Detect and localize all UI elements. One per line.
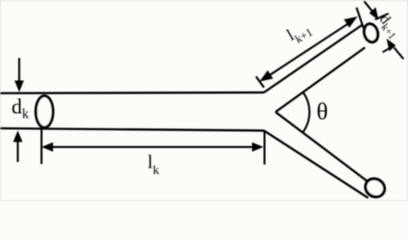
d_k+1 upper extension tick	[375, 14, 389, 20]
parent tube opening ellipse	[36, 96, 53, 128]
svg-text:θ: θ	[317, 100, 329, 126]
upper branch inner wall	[276, 48, 366, 113]
d_k+1 upper-left arrow	[364, 1, 372, 11]
l_k+1 label	[284, 17, 316, 49]
lower branch inner wall	[276, 112, 368, 181]
upper branch opening ellipse	[362, 22, 380, 43]
l_k right extension line	[264, 130, 266, 165]
l_k left extension line	[41, 129, 43, 165]
d_k+1 lower extension tick	[383, 45, 395, 52]
parent tube top wall	[0, 91, 264, 94]
d_k+1 lower-right arrow	[394, 48, 404, 60]
l_k dimension line	[49, 146, 256, 148]
l_k+1 lower extension tick	[256, 77, 264, 88]
d_k lower arrow	[17, 139, 19, 162]
lower branch opening ellipse	[362, 175, 388, 200]
d_k upper arrow	[18, 58, 20, 84]
parent tube bottom wall	[0, 128, 264, 130]
l_k+1 upper extension tick	[357, 8, 364, 29]
lower branch outer wall	[264, 131, 368, 198]
l_k+1 dimension line	[266, 22, 351, 78]
theta angle arc	[303, 92, 309, 131]
d_k+1 label	[374, 12, 403, 42]
upper branch outer wall	[264, 25, 362, 93]
